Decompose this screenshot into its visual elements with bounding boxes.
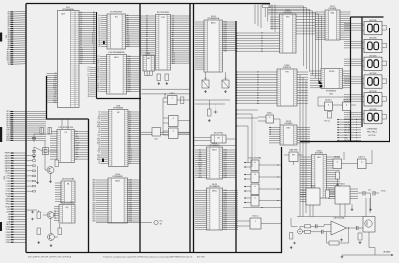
- resistor pack on XS2 rows: [26, 155, 33, 157]
- DD7 right pins: [171, 15, 191, 17]
- latch DD12: [211, 133, 226, 143]
- ROM DD7 K573RF: [156, 11, 171, 70]
- DD2 right pins: [75, 131, 89, 133]
- DD8 left pins: [101, 111, 109, 113]
- DD8 right pins: [128, 111, 140, 113]
- DD25.1 wires: [258, 116, 266, 118]
- coupling capacitor C11: [356, 226, 358, 230]
- DD4 bottom stubs and grounds: [144, 71, 146, 76]
- svg-text:СТР1: СТР1: [6, 176, 10, 178]
- gate DD9.1: [168, 93, 178, 104]
- svg-text:ZQ2: ZQ2: [154, 139, 157, 141]
- wires lower-left: [26, 210, 47, 213]
- buffer DD4: [143, 56, 155, 72]
- DD6 right pins: [127, 56, 141, 58]
- DD20.4 input wires: [244, 197, 251, 199]
- svg-text:СИНХ: СИНХ: [5, 199, 11, 201]
- resistor R9: [55, 160, 59, 167]
- DD14 right pins: [223, 149, 237, 151]
- diode VD2: [31, 218, 34, 220]
- svg-text:ПВ0: ПВ0: [92, 221, 95, 223]
- input wires: [303, 231, 305, 233]
- svg-text:D3: D3: [257, 80, 259, 82]
- output transistor box VT5: [363, 217, 375, 233]
- svg-text:КР580ВВ55: КР580ВВ55: [113, 176, 123, 178]
- DD6 left pin stubs: [100, 56, 107, 58]
- svg-text:КЛЧ4: КЛЧ4: [6, 237, 10, 239]
- display HG5: [362, 90, 387, 106]
- svg-text:ПБ1: ПБ1: [127, 91, 130, 93]
- section divider x=140: [139, 4, 142, 253]
- ground R16: [158, 82, 160, 83]
- svg-text:КЛЧ0: КЛЧ0: [6, 227, 10, 229]
- gate DD20.4: [251, 196, 259, 207]
- ground R15: [208, 119, 210, 120]
- output arrow: [391, 254, 393, 256]
- svg-text:D4: D4: [257, 82, 259, 84]
- svg-text:КР565: КР565: [329, 71, 335, 73]
- indicator lamp: [154, 220, 158, 224]
- svg-text:D7: D7: [257, 90, 259, 92]
- resistor R8: [48, 128, 52, 135]
- gate DD9.3: [169, 128, 179, 139]
- ground C2: [33, 156, 35, 157]
- PPI DD10 KR580VV55: [108, 174, 128, 223]
- DD20.3 input wires: [244, 186, 251, 188]
- gate wires: [163, 97, 168, 99]
- ground DA1: [341, 239, 343, 240]
- gate DD21.1: [250, 218, 261, 229]
- VT5 wires: [358, 227, 363, 229]
- svg-text:СТР3: СТР3: [6, 181, 10, 183]
- wire under DD10: [96, 222, 152, 224]
- capacitor C10: [315, 224, 317, 228]
- DD16 right pins to DD17: [296, 16, 315, 18]
- quartz ZQ1: [43, 148, 49, 155]
- svg-text:D5: D5: [257, 85, 259, 87]
- address bus x=96.5: [95, 12, 97, 99]
- boundary step y=98.5: [97, 97, 142, 100]
- DD24 right pins: [327, 156, 341, 158]
- USART DD6 KR580VV51: [107, 51, 127, 94]
- svg-text:СТР2: СТР2: [6, 178, 10, 180]
- timer DA3 K155AG3: [335, 186, 350, 204]
- right logic wires: [342, 163, 358, 165]
- connector XS1 group2 pins: [6, 111, 46, 142]
- ground VT1: [50, 180, 52, 181]
- capacitor C2: [32, 150, 36, 152]
- dark label mark: [102, 159, 104, 163]
- junction blob: [320, 85, 323, 87]
- svg-text:ГТ: ГТ: [76, 159, 78, 161]
- transistor VT1: [47, 167, 54, 174]
- DD14 left pins: [195, 149, 207, 151]
- wires DD29 area: [339, 204, 341, 217]
- svg-text:ТМ: ТМ: [217, 137, 220, 139]
- horizontal feeds top: [268, 5, 304, 7]
- svg-text:HL1: HL1: [160, 221, 163, 223]
- svg-text:СТР6: СТР6: [6, 188, 10, 190]
- connector XS1 pins: [7, 11, 26, 66]
- svg-text:ВОЗВ: ВОЗВ: [5, 194, 11, 196]
- svg-text:КЛЧ5: КЛЧ5: [6, 239, 10, 241]
- DD16 upper-left stubs: [270, 16, 280, 18]
- ground C26: [370, 208, 372, 209]
- PPI DD15 KR580VV55: [207, 184, 223, 230]
- clockgen DD2 KR580GF24: [57, 126, 75, 162]
- svg-text:D6: D6: [257, 87, 259, 89]
- resistor R12: [37, 212, 41, 219]
- frame bottom border: [26, 251, 282, 254]
- svg-text:КР580ВВ55: КР580ВВ55: [209, 186, 219, 188]
- timer DA5 K155: [321, 69, 343, 89]
- DD29 left pins: [300, 189, 306, 191]
- svg-text:DD11 К155ИД1: DD11 К155ИД1: [60, 202, 73, 204]
- DD29 bottom wires: [309, 205, 311, 217]
- input jack: [298, 229, 303, 234]
- RAM DD5 KR580: [107, 12, 126, 49]
- svg-text:ИЕ2: ИЕ2: [287, 127, 291, 129]
- resistor R22: [336, 172, 340, 179]
- frame left border: [25, 4, 28, 253]
- timer DD3: [61, 178, 75, 203]
- svg-text:КР580ВИ53: КР580ВИ53: [326, 91, 336, 93]
- driver DD11: [59, 202, 75, 223]
- scan fold mark bottom: [0, 222, 2, 231]
- resistor R15: [208, 109, 212, 116]
- grounds lower-left: [50, 244, 52, 245]
- svg-text:DD26.1: DD26.1: [334, 157, 340, 159]
- svg-text:D2: D2: [261, 38, 263, 40]
- gate DD28.1: [325, 100, 333, 111]
- resistor R19: [326, 190, 330, 198]
- RAM DD18 K565RU6: [277, 65, 297, 106]
- section divider x=190: [189, 4, 192, 253]
- resistor R16 under DD6: [157, 74, 161, 81]
- DA3 right pins: [350, 188, 358, 190]
- svg-text:D5 КР565РУ2: D5 КР565РУ2: [110, 12, 122, 14]
- gate DD25.1: [266, 115, 274, 123]
- resistor R20: [328, 112, 332, 119]
- svg-text:D2: D2: [257, 77, 259, 79]
- svg-text:ПРМ: ПРМ: [198, 177, 202, 179]
- svg-text:D7: D7: [261, 51, 263, 53]
- svg-text:К155ИД1: К155ИД1: [329, 8, 337, 10]
- display enclosure left x=350.5: [349, 17, 351, 142]
- timer DD29: [306, 188, 320, 205]
- svg-text:D0: D0: [257, 72, 259, 74]
- svg-text:ВВ51: ВВ51: [114, 57, 119, 59]
- svg-text:ЯРК0: ЯРК0: [6, 201, 10, 203]
- svg-text:ЗВ. ВЫХ.: ЗВ. ВЫХ.: [383, 251, 391, 253]
- svg-text:ПРМ: ПРМ: [6, 140, 10, 142]
- svg-text:ВВ51: ВВ51: [212, 149, 217, 151]
- DD17 right pins: [340, 11, 351, 13]
- svg-text:D1: D1: [257, 74, 259, 76]
- DD5 right pins: [126, 15, 141, 17]
- DD18 left pin rows from bus: [236, 71, 277, 73]
- gate DD20.2: [251, 172, 259, 183]
- boundary horizontal y=119: [47, 118, 89, 121]
- transistor VT2: [47, 212, 54, 219]
- svg-text:ВВ55: ВВ55: [212, 190, 217, 192]
- op-amp DA1: [331, 221, 347, 235]
- svg-text:КЛЧ1: КЛЧ1: [6, 229, 10, 231]
- DD2 top feed wires: [61, 119, 63, 130]
- capacitor C26: [372, 191, 374, 196]
- capacitor C12: [321, 230, 323, 234]
- svg-text:ЧТ: ЧТ: [76, 131, 78, 133]
- crystal box on top border: [263, 5, 270, 8]
- wire row y=145.5: [194, 145, 237, 147]
- component X1 box: [152, 128, 161, 137]
- connector XS2 pins: [5, 152, 26, 244]
- frame top border: [26, 2, 270, 5]
- feedback wires: [326, 232, 328, 244]
- display enclosure bottom y=141.5: [300, 140, 390, 142]
- svg-text:К155ИЕ5: К155ИЕ5: [315, 153, 323, 155]
- svg-text:ВВ55: ВВ55: [211, 22, 216, 24]
- display enclosure top y=17: [351, 16, 384, 18]
- svg-text:ЧТ: ЧТ: [76, 150, 78, 152]
- DD20.3 output wire: [259, 188, 282, 190]
- ROM DD16 K573RF5: [280, 10, 297, 53]
- svg-text:К565РУ6: К565РУ6: [283, 67, 291, 69]
- svg-text:КЛЧ2: КЛЧ2: [6, 232, 10, 234]
- display column rail x=362: [361, 17, 363, 127]
- svg-text:DD9.1: DD9.1: [170, 93, 175, 95]
- svg-text:ПБ3: ПБ3: [224, 229, 227, 231]
- svg-text:ПР. СЧ: ПР. СЧ: [324, 121, 329, 123]
- ground R4: [359, 241, 361, 242]
- display HG2: [362, 37, 387, 53]
- wires op-amp left rail: [290, 218, 292, 226]
- DD10 left pins: [96, 179, 108, 181]
- display enclosure right x=389.5: [389, 28, 391, 142]
- DD7 left pins: [140, 15, 156, 17]
- capacitor C1: [32, 137, 36, 139]
- DD16 left pin rows from bus: [236, 32, 280, 34]
- DD18 right pins: [297, 71, 308, 73]
- trimmer C3: [202, 80, 209, 88]
- svg-text:РУ6: РУ6: [285, 71, 288, 73]
- DD13 left pins: [195, 21, 204, 23]
- USART DD14 KR580VV51: [207, 143, 223, 179]
- ground DA3: [351, 208, 353, 209]
- scan fold mark top: [0, 33, 2, 42]
- long wires under DD4: [142, 88, 191, 90]
- svg-text:DD29: DD29: [311, 186, 315, 188]
- resistor R14: [58, 228, 62, 235]
- svg-text:D6: D6: [261, 48, 263, 50]
- verticals to audio section: [365, 198, 367, 217]
- wire row y=207.5: [243, 207, 282, 209]
- svg-text:К155ИЕ2: К155ИЕ2: [285, 123, 293, 125]
- DD20.4 output wire: [259, 200, 282, 202]
- display feed rows: [344, 23, 362, 25]
- svg-text:СТР5: СТР5: [6, 186, 10, 188]
- trimmer C4: [222, 80, 229, 88]
- seconds/minutes signal rows: [337, 119, 361, 121]
- svg-text:КР580ВВ51: КР580ВВ51: [209, 145, 219, 147]
- DD20.2 output wire: [259, 176, 282, 178]
- feedback resistor R3: [329, 241, 339, 245]
- svg-text:ЗЕЛ: ЗЕЛ: [7, 209, 10, 211]
- svg-text:DD12 ТМ2: DD12 ТМ2: [214, 133, 223, 135]
- svg-text:D4: D4: [261, 43, 263, 45]
- svg-text:D1: D1: [261, 35, 263, 37]
- svg-text:1: 1: [255, 221, 256, 223]
- DD20.1 input wires: [244, 162, 251, 164]
- long wire pair y=132: [141, 131, 190, 133]
- top distribution verticals: [254, 5, 256, 25]
- ground R17: [166, 82, 168, 83]
- svg-text:СТР4: СТР4: [6, 183, 10, 185]
- ground C4: [225, 90, 227, 91]
- resistor R17 under DD6: [165, 74, 169, 81]
- speaker output wire: [368, 232, 370, 248]
- CPU DD1 KR580VM80A: [58, 7, 80, 108]
- DA5 left pins: [310, 70, 321, 72]
- dark mark right of bus: [103, 41, 105, 44]
- DA3 left pins: [328, 188, 335, 190]
- gate DD20.1: [251, 160, 259, 171]
- DD10 right pins: [128, 179, 140, 181]
- svg-text:КЛЧ3: КЛЧ3: [6, 234, 10, 236]
- ground rail: [290, 246, 292, 247]
- DD2 left pins: [50, 131, 57, 133]
- DD5 left pin stubs: [101, 15, 107, 17]
- svg-text:СТР0: СТР0: [6, 173, 10, 175]
- counter DD24 K155IE5: [312, 151, 327, 199]
- rows below DD18 from bus: [236, 109, 258, 111]
- resistor R1 input: [305, 225, 311, 228]
- vertical feed bundle: [303, 6, 305, 66]
- svg-text:ИЕ5: ИЕ5: [317, 157, 321, 159]
- DD3 left pins: [55, 182, 61, 184]
- display HG6: [362, 108, 387, 124]
- DD11 left pins: [54, 206, 59, 208]
- gate DD27.1: [358, 157, 367, 169]
- svg-text:ИД1: ИД1: [331, 12, 335, 14]
- svg-text:D5: D5: [261, 46, 263, 48]
- decoder DD17 K155ID1: [325, 6, 340, 40]
- DD19 left pins: [269, 127, 280, 129]
- gate DD20.3: [251, 184, 259, 195]
- diode VD3: [214, 111, 218, 113]
- PLL wires: [333, 104, 343, 106]
- svg-text:В4Т 2837: В4Т 2837: [197, 256, 205, 258]
- DD1 left pins: [47, 73, 58, 75]
- DD21.1 wires: [236, 220, 250, 222]
- svg-text:ВВ55: ВВ55: [115, 180, 120, 182]
- diode VD5: [293, 242, 296, 244]
- DD13 area wires: [205, 72, 207, 80]
- resistor R2 input: [305, 230, 311, 233]
- op-amp output wire: [347, 227, 357, 229]
- svg-text:DD21.1: DD21.1: [252, 216, 258, 218]
- svg-text:ПРМ: ПРМ: [76, 143, 80, 145]
- svg-text:СТР7: СТР7: [6, 191, 10, 193]
- display HG4: [362, 72, 387, 88]
- gate DD26.1: [333, 157, 342, 169]
- ground left rail: [37, 181, 39, 182]
- resistor R near DD9.1: [181, 97, 184, 104]
- ground output wire: [341, 255, 343, 256]
- DD15 left pins: [195, 190, 207, 192]
- svg-text:ЯРК1: ЯРК1: [6, 204, 10, 206]
- section divider x=281.5: [280, 147, 283, 253]
- DD24 left pins: [300, 156, 312, 158]
- osc wires: [34, 133, 50, 135]
- counter DD19 K155IE2: [280, 121, 297, 145]
- section divider x=193.5: [192, 4, 195, 253]
- volume resistor R4: [358, 233, 362, 240]
- display HG3: [362, 54, 387, 70]
- DA2 stubs: [284, 154, 289, 156]
- scan fold mark middle: [0, 127, 2, 142]
- DD20.2 input wires: [244, 174, 251, 176]
- svg-text:КЛЧ6: КЛЧ6: [6, 242, 10, 244]
- resistor R7: [40, 128, 44, 135]
- DA5 right pins: [343, 70, 351, 72]
- svg-text:DD27.1: DD27.1: [359, 157, 365, 159]
- ground C3: [205, 90, 207, 91]
- DD15 right pins: [223, 190, 239, 192]
- svg-text:D1: D1: [129, 163, 131, 165]
- bus feed rows lower: [90, 67, 97, 69]
- svg-text:КР580ВК38: КР580ВК38: [113, 108, 123, 110]
- long wire y=216.5: [297, 216, 363, 218]
- capacitor C25: [362, 191, 364, 196]
- verticals feeding gate stack: [247, 126, 249, 163]
- svg-text:1: 1: [172, 98, 173, 100]
- DD20.1 output wire: [259, 164, 282, 166]
- verticals from DD18 right going down: [299, 75, 301, 217]
- resistor R13: [37, 228, 41, 235]
- gate DD9.2: [169, 116, 179, 127]
- boundary vertical x=88.5: [87, 119, 90, 253]
- bus line x=236: [235, 21, 238, 253]
- resistor R5 rail: [290, 233, 293, 240]
- DD13 right pins to bus: [223, 21, 237, 23]
- DA5 black triangle mark: [319, 80, 323, 84]
- DD19 right pins: [297, 127, 310, 129]
- DD1 right pins to address bus: [79, 11, 97, 13]
- svg-text:D0: D0: [261, 33, 263, 35]
- gate DD28.2: [343, 100, 351, 111]
- svg-text:DD4: DD4: [147, 53, 151, 55]
- svg-text:DD28.1: DD28.1: [325, 100, 331, 102]
- svg-text:D3: D3: [261, 41, 263, 43]
- display HG1: [362, 19, 387, 35]
- DD17 left pins: [315, 11, 325, 13]
- ctrl DD8 KR580VK38: [109, 106, 129, 167]
- DD12 stubs: [194, 137, 212, 139]
- svg-text:РЕЖ. ИНД. 5: РЕЖ. ИНД. 5: [367, 132, 377, 134]
- boundary vertical x=46.5: [45, 76, 48, 120]
- PPI DD13 KR580VV55A: [204, 16, 223, 72]
- diode VD1: [31, 211, 34, 213]
- crystal wires down: [264, 8, 266, 17]
- transistor VT3: [48, 234, 55, 241]
- svg-text:ГТ: ГТ: [76, 140, 78, 142]
- regulator DA2: [289, 149, 298, 162]
